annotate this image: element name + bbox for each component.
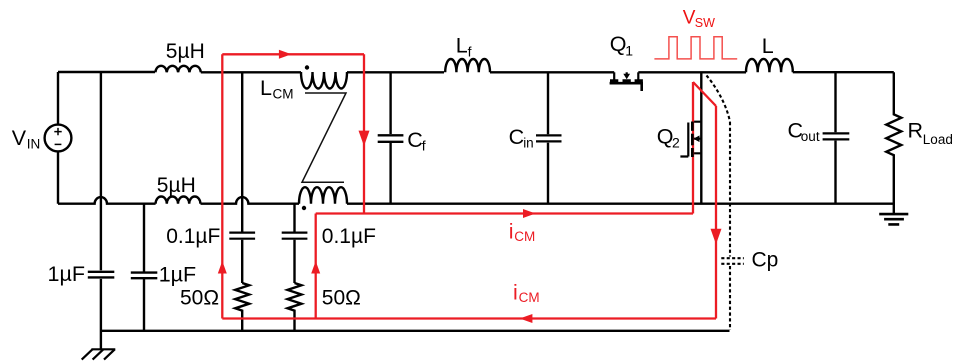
svg-text:L: L <box>456 34 468 58</box>
capacitor 1uF left <box>88 272 115 278</box>
svg-text:50Ω: 50Ω <box>180 287 219 310</box>
svg-text:50Ω: 50Ω <box>322 287 361 310</box>
svg-text:i: i <box>513 281 518 305</box>
red CM loop left vertical x=222 <box>221 54 223 318</box>
label LCM <box>260 76 294 102</box>
svg-text:2: 2 <box>672 135 680 151</box>
transistor Q1 <box>610 72 643 91</box>
capacitor 0.1uF right plates <box>282 233 308 239</box>
transistor Q2 body arrow overlay <box>694 136 700 143</box>
capacitor 1uF right plates <box>131 273 158 279</box>
svg-text:0.1µF: 0.1µF <box>322 225 376 248</box>
wire top rail segment 4 <box>490 71 614 73</box>
wire top rail left segment <box>58 71 155 73</box>
source VIN circle <box>45 125 72 152</box>
label Lf <box>456 34 472 60</box>
red vertical x=716 <box>715 106 717 319</box>
label Cout <box>788 119 820 144</box>
svg-text:5µH: 5µH <box>166 40 205 63</box>
svg-text:in: in <box>523 136 534 151</box>
capacitor 1uF right leads <box>143 204 145 331</box>
red diagonal Q2 to Cp path <box>693 82 716 106</box>
transistor Q2 body <box>680 122 701 158</box>
label Cin <box>509 125 534 151</box>
wire vertical x=101 from top rail to chassis <box>100 72 102 349</box>
transistor Q2 channel overlay above red <box>691 122 694 158</box>
label Cf <box>407 128 426 154</box>
capacitor Cout leads <box>834 72 836 204</box>
wire top rail segment 2 <box>201 71 301 73</box>
svg-text:SW: SW <box>695 16 715 30</box>
svg-text:CM: CM <box>519 290 540 305</box>
capacitor 0.1uF left leads <box>241 72 243 283</box>
wire bottom chassis y=331 <box>101 330 730 332</box>
red bottom horizontal y=318.5 <box>222 317 716 319</box>
resistor 50ohm left <box>235 283 249 331</box>
red vertical x=364 <box>363 54 365 213</box>
svg-text:1µF: 1µF <box>48 262 85 286</box>
svg-text:i: i <box>509 220 514 244</box>
parasitic path dashed diagonal <box>707 76 731 123</box>
svg-text:1: 1 <box>625 43 633 59</box>
capacitor Cin plates <box>536 135 562 141</box>
wire top rail segment 3 <box>347 71 444 73</box>
svg-text:C: C <box>407 128 423 152</box>
capacitor Cout plates <box>823 133 850 139</box>
red arrow down on x=716 <box>711 229 722 245</box>
inductor 5uH top <box>155 66 200 73</box>
red arrow up on x=222 <box>218 261 227 274</box>
waveform VSW square wave <box>654 37 737 59</box>
source VIN plus sign <box>54 128 61 135</box>
bottom rail y=204 with hops and windings <box>58 197 156 204</box>
svg-text:L: L <box>762 34 774 58</box>
inductor LCM top winding <box>301 72 347 89</box>
svg-text:f: f <box>422 138 426 154</box>
svg-text:f: f <box>468 44 472 60</box>
capacitor Cin leads <box>547 72 549 203</box>
inductor LCM bottom winding <box>299 187 347 203</box>
svg-text:CM: CM <box>273 87 294 102</box>
label RLoad <box>908 119 953 147</box>
red top horizontal y=54 <box>222 53 364 55</box>
svg-text:IN: IN <box>27 137 41 152</box>
bottom rail hop at x=242 <box>201 197 300 204</box>
capacitor 0.1uF left plates <box>229 233 255 239</box>
svg-text:1µF: 1µF <box>159 263 196 287</box>
bottom rail right of LCM <box>347 202 894 204</box>
label iCM upper <box>509 220 536 244</box>
svg-text:Q: Q <box>610 32 627 56</box>
polarity dot LCM top <box>305 65 309 69</box>
source VIN minus sign <box>55 143 62 145</box>
wire top rail segment 5 <box>638 71 746 73</box>
resistor 50ohm right <box>288 283 302 331</box>
red mid horizontal y=213.5 <box>316 212 693 214</box>
capacitor Cp plates dotted <box>721 258 744 264</box>
label Q1 <box>610 32 634 59</box>
svg-text:CM: CM <box>514 229 535 244</box>
wire top rail segment 6 <box>793 71 894 73</box>
label VIN <box>12 126 41 152</box>
capacitor Cf plates <box>378 135 404 142</box>
red arrow right on y=213.5 <box>523 209 536 218</box>
label iCM lower <box>513 281 540 305</box>
svg-text:C: C <box>509 125 525 149</box>
polarity dot LCM bottom <box>302 206 306 210</box>
ground chassis left <box>82 349 116 359</box>
capacitor 0.1uF right leads <box>293 204 295 283</box>
svg-text:0.1µF: 0.1µF <box>166 225 220 248</box>
parasitic path dashed vertical <box>729 122 731 330</box>
svg-text:R: R <box>908 119 924 143</box>
ground earth right <box>879 214 908 224</box>
svg-text:L: L <box>260 76 272 100</box>
svg-text:Load: Load <box>923 132 953 147</box>
svg-text:out: out <box>801 129 820 144</box>
svg-text:V: V <box>12 126 27 150</box>
transistor Q2 drain-source vertical <box>700 72 702 203</box>
red arrow right on y=54 <box>279 50 292 59</box>
svg-text:Cp: Cp <box>752 249 779 272</box>
source VIN vertical leads <box>57 72 59 204</box>
red arrow up on x=315.7 <box>311 261 320 274</box>
inductor 5uH bottom <box>156 197 201 204</box>
label VSW <box>683 7 715 30</box>
core line Z of LCM <box>302 93 346 182</box>
capacitor Cf leads <box>389 72 391 203</box>
svg-text:5µH: 5µH <box>157 174 196 197</box>
red vertical x=315.7 <box>315 214 317 319</box>
inductor Lf <box>445 59 490 72</box>
red vertical through Q2 x=693 <box>692 82 694 214</box>
red arrow down on x=364 <box>359 131 370 147</box>
red arrow left on y=318.5 <box>520 314 533 323</box>
label Q2 <box>657 125 680 151</box>
resistor RLoad <box>886 72 901 214</box>
inductor L output <box>746 59 793 72</box>
